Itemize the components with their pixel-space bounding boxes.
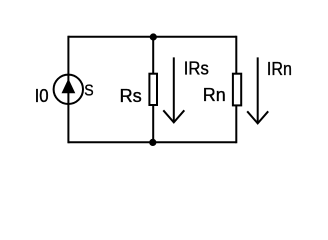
svg-text:IRn: IRn: [267, 59, 292, 79]
svg-text:Rs: Rs: [120, 86, 142, 106]
resistor Rn: [233, 74, 241, 106]
wire bottom rail: [68, 141, 236, 143]
wire top rail: [68, 36, 236, 38]
node junction top: [150, 33, 157, 40]
svg-text:S: S: [84, 83, 93, 100]
resistor Rs: [149, 74, 157, 105]
wire right branch: [235, 36, 237, 144]
node junction bottom: [149, 139, 156, 146]
wire left branch: [67, 36, 69, 144]
svg-text:I0: I0: [35, 86, 49, 106]
svg-text:Rn: Rn: [203, 85, 226, 105]
current arrow IRs: [163, 57, 184, 122]
current source S (I0): [54, 75, 83, 104]
current arrow IRn: [247, 57, 268, 123]
wire middle branch: [152, 36, 154, 144]
svg-text:IRs: IRs: [184, 59, 209, 79]
